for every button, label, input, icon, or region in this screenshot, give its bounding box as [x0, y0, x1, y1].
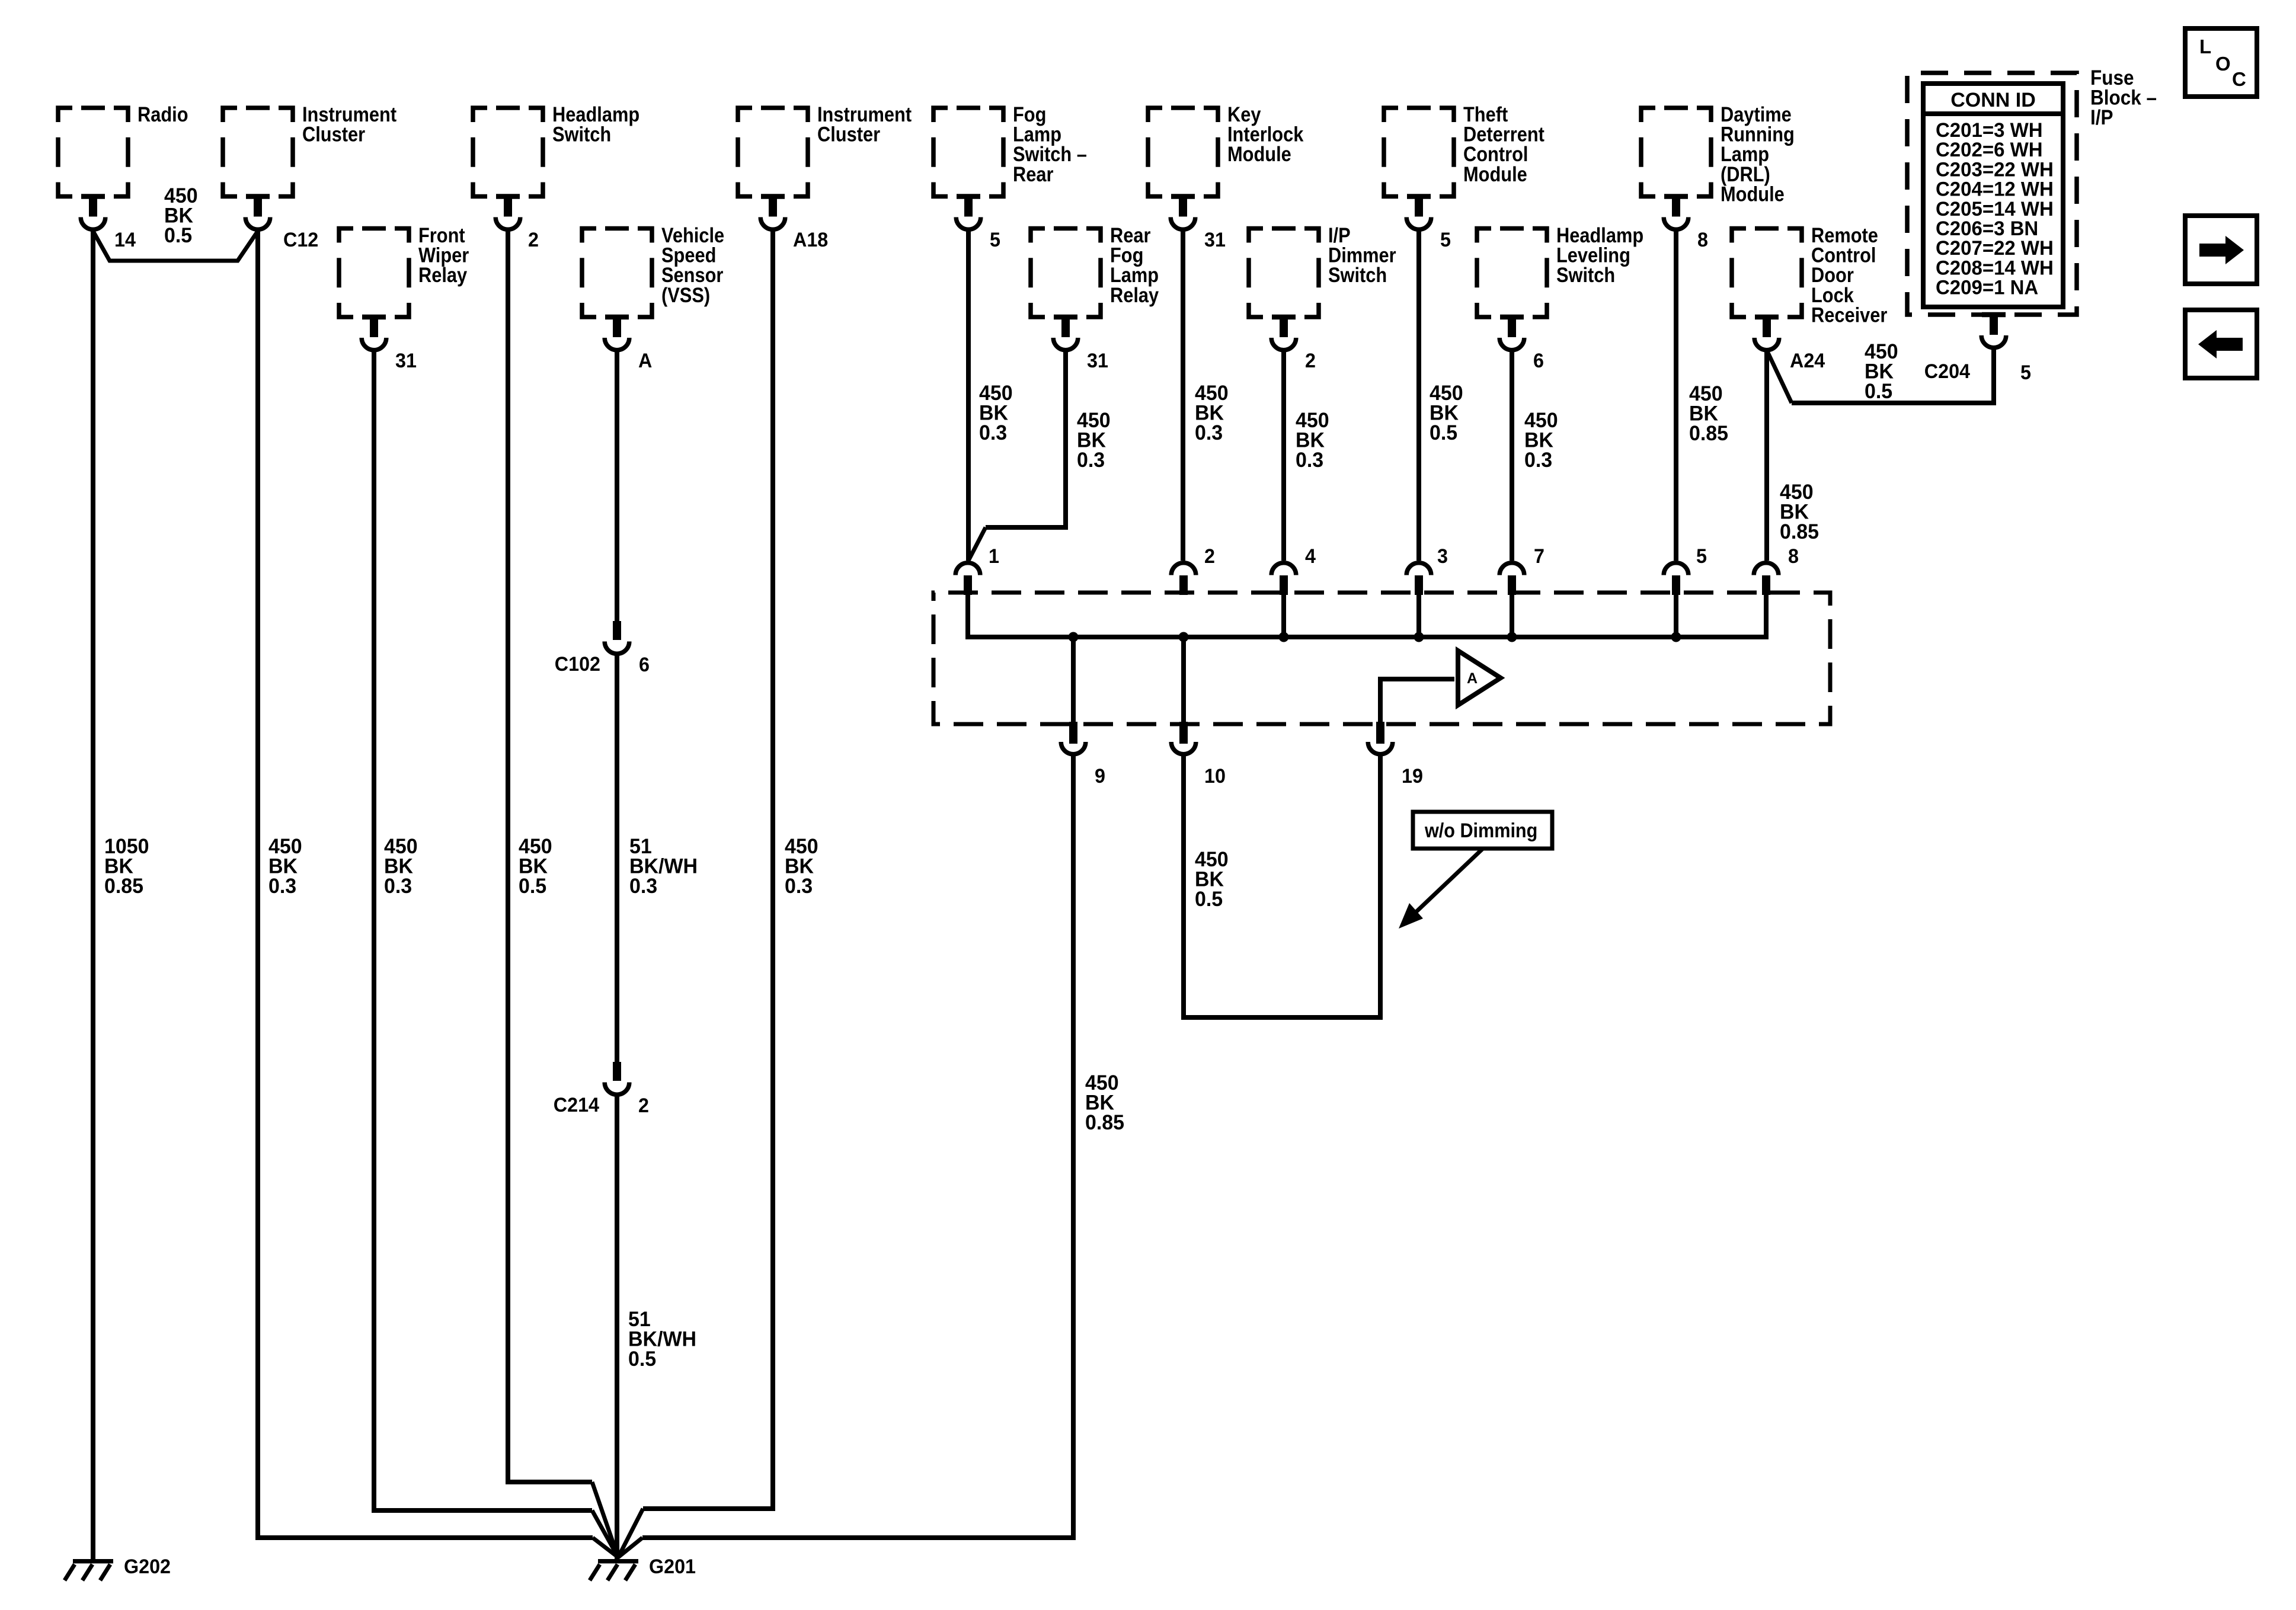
svg-text:2: 2	[638, 1094, 649, 1117]
svg-text:C102: C102	[555, 653, 600, 676]
svg-text:14: 14	[114, 229, 136, 251]
svg-text:5: 5	[2020, 361, 2031, 384]
svg-text:0.85: 0.85	[1689, 422, 1728, 446]
svg-text:0.5: 0.5	[1430, 422, 1457, 445]
svg-text:0.85: 0.85	[104, 875, 143, 898]
svg-text:0.3: 0.3	[1077, 449, 1105, 472]
svg-text:8: 8	[1788, 545, 1799, 568]
svg-text:0.5: 0.5	[519, 875, 546, 898]
svg-text:L: L	[2199, 36, 2211, 57]
svg-text:C206=3 BN: C206=3 BN	[1936, 218, 2038, 241]
svg-text:A18: A18	[793, 229, 828, 251]
svg-text:C207=22 WH: C207=22 WH	[1936, 238, 2054, 260]
svg-text:w/o Dimming: w/o Dimming	[1424, 820, 1537, 842]
svg-text:31: 31	[1204, 229, 1226, 251]
svg-text:C201=3 WH: C201=3 WH	[1936, 120, 2043, 142]
svg-text:0.3: 0.3	[629, 875, 657, 898]
svg-text:C202=6 WH: C202=6 WH	[1936, 139, 2043, 162]
svg-text:I/P: I/P	[2090, 107, 2113, 130]
svg-text:5: 5	[1440, 229, 1451, 251]
svg-text:(VSS): (VSS)	[661, 283, 710, 306]
svg-text:C204: C204	[1924, 360, 1971, 383]
svg-text:2: 2	[528, 229, 539, 251]
svg-text:A: A	[638, 350, 652, 372]
svg-text:Module: Module	[1227, 142, 1291, 165]
svg-text:C203=22 WH: C203=22 WH	[1936, 159, 2054, 181]
svg-text:6: 6	[1533, 350, 1544, 372]
svg-text:Switch: Switch	[552, 123, 611, 146]
svg-text:3: 3	[1437, 545, 1448, 568]
svg-text:G202: G202	[124, 1555, 171, 1578]
svg-text:6: 6	[639, 654, 650, 676]
svg-text:19: 19	[1402, 765, 1423, 788]
svg-text:Relay: Relay	[1110, 283, 1159, 306]
svg-text:0.85: 0.85	[1085, 1112, 1124, 1135]
svg-text:5: 5	[990, 229, 1000, 251]
svg-text:7: 7	[1534, 545, 1544, 568]
svg-text:Switch: Switch	[1556, 263, 1615, 286]
svg-text:Switch: Switch	[1328, 263, 1387, 286]
svg-text:Relay: Relay	[418, 263, 468, 286]
svg-text:4: 4	[1305, 545, 1316, 568]
svg-text:C204=12 WH: C204=12 WH	[1936, 178, 2054, 201]
svg-text:0.3: 0.3	[1195, 422, 1223, 445]
svg-text:Module: Module	[1463, 162, 1527, 185]
svg-text:Cluster: Cluster	[302, 123, 365, 146]
svg-text:31: 31	[395, 350, 417, 372]
svg-text:0.5: 0.5	[1195, 888, 1223, 911]
svg-text:0.3: 0.3	[1296, 449, 1323, 472]
svg-text:5: 5	[1696, 545, 1707, 568]
svg-text:CONN ID: CONN ID	[1950, 89, 2036, 111]
svg-text:C205=14 WH: C205=14 WH	[1936, 198, 2054, 220]
svg-text:10: 10	[1204, 765, 1226, 788]
svg-text:Cluster: Cluster	[817, 123, 880, 146]
svg-text:8: 8	[1697, 229, 1708, 251]
svg-text:0.85: 0.85	[1780, 521, 1819, 544]
svg-text:31: 31	[1087, 350, 1108, 372]
svg-text:Radio: Radio	[137, 103, 188, 126]
svg-text:1: 1	[989, 545, 999, 568]
svg-text:G201: G201	[649, 1555, 696, 1578]
svg-text:0.5: 0.5	[164, 225, 192, 248]
svg-text:O: O	[2215, 53, 2231, 75]
svg-text:9: 9	[1095, 765, 1105, 788]
svg-text:C209=1 NA: C209=1 NA	[1936, 277, 2038, 299]
svg-text:0.3: 0.3	[384, 875, 412, 898]
svg-text:0.3: 0.3	[268, 875, 296, 898]
svg-text:C214: C214	[554, 1094, 600, 1116]
svg-text:2: 2	[1305, 350, 1316, 372]
svg-text:Rear: Rear	[1013, 162, 1054, 185]
svg-text:0.3: 0.3	[1524, 449, 1552, 472]
svg-text:0.5: 0.5	[628, 1348, 656, 1371]
svg-text:C12: C12	[283, 229, 318, 251]
svg-text:0.5: 0.5	[1865, 380, 1892, 404]
svg-text:Module: Module	[1721, 183, 1785, 206]
svg-text:0.3: 0.3	[979, 422, 1007, 445]
svg-text:A: A	[1467, 670, 1478, 687]
svg-text:C208=14 WH: C208=14 WH	[1936, 257, 2054, 280]
svg-text:2: 2	[1204, 545, 1215, 568]
svg-text:Receiver: Receiver	[1811, 303, 1888, 327]
svg-text:A24: A24	[1790, 350, 1825, 372]
svg-text:C: C	[2232, 68, 2246, 90]
svg-text:0.3: 0.3	[785, 875, 813, 898]
